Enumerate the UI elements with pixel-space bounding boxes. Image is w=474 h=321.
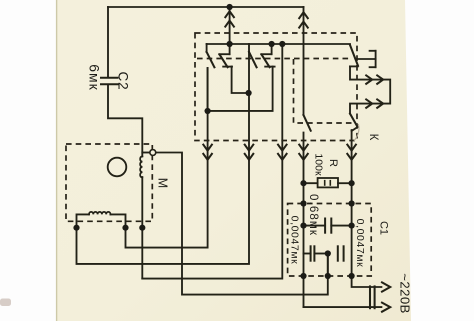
svg-text:6мк: 6мк [87, 64, 103, 91]
wire K to plug upper [352, 130, 382, 287]
plug socket bars [369, 286, 371, 308]
paper left edge shadow [56, 0, 58, 321]
wire entry x=229.5 connector [229, 7, 231, 44]
capacitor 0.68 leads [304, 225, 326, 227]
connector pair x=229.5 [225, 11, 234, 17]
connector pair x=303.5 [299, 12, 308, 18]
mech link dashed y=58.5 [197, 58, 352, 60]
contact K blade [350, 114, 358, 127]
plug arrow lower [382, 303, 390, 312]
wire aux-left to exit x=249 [77, 52, 250, 264]
wire plug lower from x=303.5 [304, 306, 382, 308]
connector chevrons top (pointing up) [203, 11, 383, 160]
series caps row [304, 253, 311, 255]
inner dashed box [294, 59, 353, 123]
wire bottom bus3 to exit x=282 [142, 44, 282, 279]
wire aux-right to exit x=207.5 [126, 68, 208, 248]
jack fork right [356, 51, 376, 67]
svg-text:0,0047мк: 0,0047мк [354, 219, 366, 268]
capacitor 0.68 plates [324, 219, 326, 233]
contact S2a [248, 44, 250, 52]
wire main winding lead down [141, 177, 143, 279]
contact S3 blade (inner box) [304, 115, 311, 131]
motor box dashed [66, 144, 152, 221]
wire chevron loop K [350, 66, 390, 113]
svg-text:~220В: ~220В [398, 273, 413, 314]
svg-text:R: R [327, 159, 339, 167]
paper page [56, 0, 411, 321]
dashed boxes [66, 33, 371, 276]
connector chevrons right-pointing upper line [366, 75, 372, 83]
faint pencil mark near K [354, 124, 359, 141]
C1 box dashed [288, 204, 372, 277]
resistor R box [318, 178, 338, 187]
capacitor C2 [101, 7, 142, 157]
wire top bus y=7 [108, 6, 304, 8]
connector chevrons right-pointing lower line [366, 99, 372, 107]
svg-text:М: М [156, 178, 170, 188]
svg-text:0,0047мк: 0,0047мк [289, 216, 301, 265]
svg-text:С2: С2 [115, 72, 130, 91]
switch box bus y=44 [207, 43, 350, 45]
svg-text:К: К [367, 134, 379, 141]
plug arrow upper [382, 282, 390, 291]
terminal circle [150, 150, 156, 156]
timer box dashed [195, 33, 357, 141]
wire S1a lower stem to dot111 [207, 68, 209, 111]
contact S2b [271, 44, 273, 54]
labels (rotated 90) [87, 64, 413, 314]
svg-text:С1: С1 [378, 221, 390, 235]
resistor R leads [304, 182, 318, 184]
scan smudge bottom-left margin [0, 299, 11, 307]
wire S1b stem to dot93 [232, 67, 249, 93]
motor terminal circle wire to C1 midpoint [156, 153, 328, 295]
contact S4 top right [350, 45, 358, 66]
contact S1a [206, 44, 208, 52]
motor aux winding coil + leads [77, 212, 126, 228]
svg-text:100к: 100к [313, 153, 325, 176]
svg-text:0,68мк: 0,68мк [307, 194, 319, 236]
wire entry x=303.5 down whole column [303, 7, 305, 115]
motor M main winding coil [140, 156, 142, 177]
motor circle [108, 158, 127, 177]
connector pairs bottom (pointing down) [203, 145, 212, 151]
contact S1b [229, 44, 231, 54]
motor terminal circle (over dashes) [150, 150, 156, 156]
wire S2b stem to wire111 [208, 67, 273, 111]
